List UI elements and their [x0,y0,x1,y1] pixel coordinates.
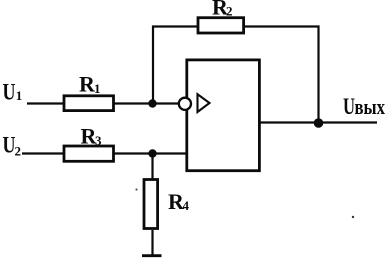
svg-text:вых: вых [355,94,386,119]
svg-text:1: 1 [16,88,23,103]
svg-text:3: 3 [95,133,102,148]
svg-text:2: 2 [226,4,233,19]
svg-text:U: U [343,94,355,119]
svg-text:1: 1 [94,81,101,96]
svg-text:2: 2 [15,144,22,159]
svg-text:4: 4 [183,198,190,213]
svg-text:U: U [3,80,16,105]
